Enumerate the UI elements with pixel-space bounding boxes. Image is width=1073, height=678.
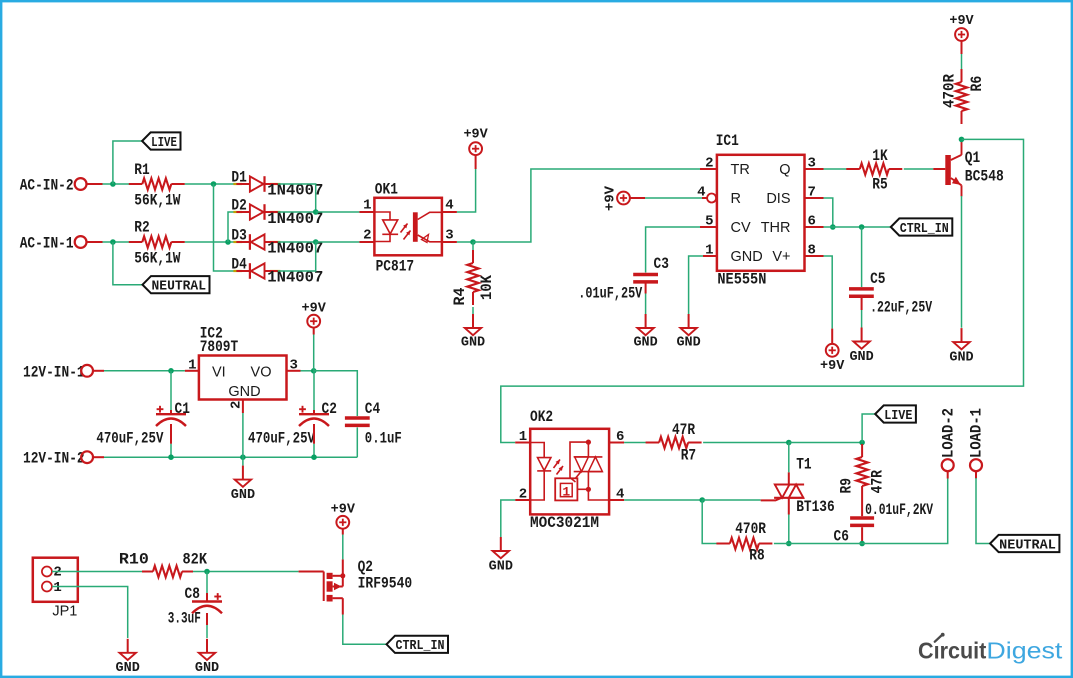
svg-text:R4: R4 bbox=[451, 287, 469, 305]
svg-text:PC817: PC817 bbox=[376, 258, 415, 276]
IC IC1 NE555N bbox=[697, 132, 823, 288]
net label NEUTRAL bbox=[143, 276, 210, 295]
svg-text:2: 2 bbox=[229, 401, 245, 409]
net label LIVE bbox=[142, 132, 180, 151]
junction bbox=[313, 209, 319, 215]
power +9V bbox=[302, 302, 327, 335]
resistor R9 bbox=[838, 444, 887, 516]
diode D2 bbox=[231, 197, 323, 228]
net label LIVE bbox=[875, 405, 916, 424]
svg-text:R10: R10 bbox=[119, 551, 149, 569]
svg-text:D1: D1 bbox=[231, 169, 246, 187]
wire bbox=[624, 499, 702, 501]
svg-text:1: 1 bbox=[705, 243, 713, 259]
junction bbox=[110, 239, 116, 245]
wire bbox=[316, 241, 360, 243]
ground bbox=[195, 639, 219, 676]
svg-text:4: 4 bbox=[445, 198, 453, 214]
wire bbox=[242, 413, 244, 466]
svg-text:GND: GND bbox=[116, 661, 140, 676]
wire bbox=[457, 169, 476, 212]
svg-text:Q2: Q2 bbox=[358, 558, 373, 576]
svg-text:+9V: +9V bbox=[949, 14, 974, 29]
wire bbox=[472, 242, 474, 250]
wire bbox=[301, 370, 314, 372]
svg-text:12V-IN-1: 12V-IN-1 bbox=[23, 363, 85, 381]
wire bbox=[501, 500, 515, 537]
svg-text:MOC3021M: MOC3021M bbox=[530, 514, 599, 532]
svg-text:C8: C8 bbox=[185, 585, 200, 603]
net label CTRL_IN bbox=[891, 218, 953, 237]
wire bbox=[961, 54, 963, 69]
capacitor C4 bbox=[345, 400, 402, 447]
svg-text:470R: 470R bbox=[735, 520, 766, 538]
junction bbox=[311, 368, 317, 374]
ground bbox=[231, 466, 255, 503]
junction bbox=[225, 239, 231, 245]
svg-text:R7: R7 bbox=[681, 446, 696, 464]
power +9V bbox=[604, 185, 645, 211]
svg-text:NE555N: NE555N bbox=[717, 270, 766, 288]
wire bbox=[472, 307, 474, 314]
svg-text:D3: D3 bbox=[231, 227, 246, 245]
svg-text:0.1uF: 0.1uF bbox=[365, 429, 402, 447]
wire bbox=[824, 226, 891, 228]
svg-text:+9V: +9V bbox=[820, 359, 845, 374]
wire bbox=[314, 371, 358, 416]
svg-text:47R: 47R bbox=[672, 421, 695, 439]
capacitor C8 bbox=[168, 585, 222, 628]
svg-text:R2: R2 bbox=[134, 219, 149, 237]
svg-text:GND: GND bbox=[231, 488, 255, 503]
svg-text:8: 8 bbox=[808, 243, 816, 259]
wire bbox=[789, 442, 862, 444]
wire bbox=[904, 168, 934, 170]
wire bbox=[356, 427, 358, 457]
wire bbox=[788, 515, 790, 544]
svg-text:GND: GND bbox=[489, 560, 513, 575]
wire bbox=[824, 256, 833, 329]
svg-text:GND: GND bbox=[676, 336, 700, 351]
wire bbox=[702, 499, 761, 501]
svg-text:7809T: 7809T bbox=[200, 338, 239, 356]
wire bbox=[193, 571, 299, 573]
resistor R5 bbox=[846, 147, 902, 194]
svg-text:C2: C2 bbox=[322, 400, 337, 418]
svg-text:0.01uF,2KV: 0.01uF,2KV bbox=[865, 501, 933, 519]
wire bbox=[185, 183, 242, 185]
svg-text:NEUTRAL: NEUTRAL bbox=[999, 537, 1056, 553]
wire bbox=[104, 456, 357, 458]
svg-text:56K,1W: 56K,1W bbox=[134, 249, 181, 267]
wire bbox=[473, 169, 700, 242]
junction bbox=[859, 440, 865, 446]
svg-text:7: 7 bbox=[808, 185, 816, 201]
connector LOAD-1 bbox=[968, 408, 986, 479]
svg-text:NEUTRAL: NEUTRAL bbox=[152, 279, 207, 295]
connector 12V-IN-2 bbox=[23, 450, 104, 468]
svg-text:IC1: IC1 bbox=[716, 132, 739, 150]
svg-text:5: 5 bbox=[705, 214, 713, 230]
svg-text:4: 4 bbox=[616, 487, 624, 503]
svg-text:TR: TR bbox=[731, 162, 750, 178]
svg-text:GND: GND bbox=[949, 350, 973, 365]
svg-text:CV: CV bbox=[731, 220, 751, 236]
wire bbox=[185, 241, 237, 243]
svg-text:LIVE: LIVE bbox=[884, 408, 912, 424]
wire bbox=[316, 211, 360, 213]
ground bbox=[849, 328, 873, 366]
wire bbox=[774, 543, 789, 545]
wire bbox=[861, 527, 863, 543]
junction bbox=[859, 541, 865, 547]
svg-text:.01uF,25V: .01uF,25V bbox=[578, 285, 642, 303]
diode D3 bbox=[231, 227, 323, 258]
wire bbox=[52, 587, 128, 639]
power +9V bbox=[949, 14, 974, 54]
triac T1 bbox=[761, 456, 835, 517]
capacitor C6 bbox=[834, 501, 934, 546]
wire bbox=[976, 478, 990, 544]
wire bbox=[313, 335, 315, 371]
svg-text:Q1: Q1 bbox=[965, 149, 980, 167]
resistor R7 bbox=[646, 421, 702, 464]
ground bbox=[676, 314, 700, 351]
wire bbox=[313, 424, 315, 457]
ground bbox=[633, 314, 657, 351]
svg-text:C4: C4 bbox=[365, 400, 381, 418]
svg-text:3: 3 bbox=[445, 228, 453, 244]
wire bbox=[103, 183, 130, 185]
svg-text:2: 2 bbox=[363, 228, 371, 244]
wire bbox=[342, 535, 344, 560]
svg-text:CTRL_IN: CTRL_IN bbox=[900, 221, 949, 237]
svg-text:T1: T1 bbox=[796, 456, 811, 474]
net label NEUTRAL bbox=[990, 535, 1059, 554]
svg-text:C1: C1 bbox=[175, 400, 190, 418]
svg-text:BC548: BC548 bbox=[965, 167, 1004, 185]
junction bbox=[168, 368, 174, 374]
svg-text:R6: R6 bbox=[968, 76, 986, 92]
resistor R10 bbox=[119, 551, 207, 578]
svg-text:Q: Q bbox=[779, 162, 790, 178]
connector JP1 bbox=[33, 558, 78, 620]
svg-text:R: R bbox=[731, 191, 741, 207]
junction bbox=[311, 454, 317, 460]
capacitor C5 bbox=[849, 270, 932, 317]
junction bbox=[786, 541, 792, 547]
connector AC-IN-2 bbox=[20, 177, 103, 195]
svg-text:2: 2 bbox=[519, 487, 527, 503]
svg-text:R8: R8 bbox=[749, 546, 764, 564]
svg-text:THR: THR bbox=[761, 220, 791, 236]
junction bbox=[699, 497, 705, 503]
junction bbox=[786, 440, 792, 446]
logo CircuitDigest bbox=[918, 633, 1063, 664]
junction bbox=[830, 224, 836, 230]
wire bbox=[702, 500, 717, 544]
resistor R2 bbox=[129, 219, 185, 268]
ground bbox=[116, 639, 140, 676]
svg-text:+9V: +9V bbox=[463, 128, 488, 143]
wire bbox=[689, 256, 703, 314]
wire bbox=[645, 197, 702, 199]
ground bbox=[949, 328, 973, 365]
svg-text:JP1: JP1 bbox=[52, 603, 77, 619]
svg-text:3: 3 bbox=[808, 156, 816, 172]
power +9V bbox=[331, 502, 356, 534]
wire bbox=[789, 478, 948, 544]
svg-text:C3: C3 bbox=[654, 255, 669, 273]
svg-text:2: 2 bbox=[53, 564, 61, 580]
optocoupler OK1 bbox=[359, 181, 457, 276]
svg-text:GND: GND bbox=[228, 384, 260, 400]
svg-text:+9V: +9V bbox=[331, 502, 356, 517]
svg-text:LIVE: LIVE bbox=[151, 135, 177, 151]
connector AC-IN-1 bbox=[20, 235, 103, 253]
wire bbox=[788, 443, 790, 473]
wire bbox=[278, 184, 316, 212]
power +9V bbox=[820, 329, 845, 374]
svg-text:D4: D4 bbox=[231, 256, 247, 274]
svg-text:1K: 1K bbox=[872, 147, 888, 165]
svg-text:GND: GND bbox=[195, 661, 219, 676]
wire bbox=[824, 168, 847, 170]
wire bbox=[214, 184, 237, 271]
svg-text:GND: GND bbox=[461, 336, 485, 351]
svg-text:10K: 10K bbox=[478, 275, 496, 300]
svg-text:56K,1W: 56K,1W bbox=[134, 191, 181, 209]
resistor R4 bbox=[451, 250, 496, 306]
wire bbox=[313, 371, 315, 414]
wire bbox=[113, 141, 142, 184]
svg-text:C5: C5 bbox=[870, 270, 885, 288]
wire bbox=[861, 297, 863, 328]
wire bbox=[645, 282, 647, 314]
svg-text:6: 6 bbox=[808, 214, 816, 230]
wire bbox=[103, 241, 130, 243]
svg-text:AC-IN-2: AC-IN-2 bbox=[20, 177, 74, 195]
wire bbox=[646, 227, 700, 273]
wire bbox=[52, 571, 142, 573]
wire bbox=[824, 198, 833, 227]
svg-text:GND: GND bbox=[731, 249, 763, 265]
wire bbox=[228, 212, 236, 242]
transistor Q2 bbox=[299, 558, 413, 615]
junction bbox=[959, 137, 965, 143]
power +9V bbox=[463, 128, 488, 169]
svg-text:1: 1 bbox=[53, 580, 61, 596]
resistor R8 bbox=[716, 520, 772, 564]
wire bbox=[170, 424, 172, 457]
wire bbox=[457, 241, 473, 243]
svg-text:.22uF,25V: .22uF,25V bbox=[870, 299, 932, 317]
svg-text:GND: GND bbox=[849, 350, 873, 365]
diode D1 bbox=[231, 169, 323, 200]
svg-text:OK1: OK1 bbox=[375, 181, 398, 199]
connector LOAD-2 bbox=[939, 408, 957, 479]
wire bbox=[501, 139, 1024, 442]
wire bbox=[113, 242, 143, 285]
diode D4 bbox=[231, 256, 323, 287]
svg-text:1: 1 bbox=[363, 198, 371, 214]
svg-text:6: 6 bbox=[616, 429, 624, 445]
svg-text:2: 2 bbox=[705, 156, 713, 172]
wire bbox=[206, 572, 208, 602]
wire bbox=[278, 242, 316, 271]
connector 12V-IN-1 bbox=[23, 363, 104, 381]
wire bbox=[206, 613, 208, 638]
svg-text:D2: D2 bbox=[231, 197, 246, 215]
svg-text:1: 1 bbox=[562, 484, 570, 499]
svg-text:1: 1 bbox=[519, 429, 527, 445]
IC IC2 7809T bbox=[185, 324, 301, 413]
svg-text:VI: VI bbox=[212, 364, 226, 380]
junction bbox=[240, 454, 246, 460]
svg-text:LOAD-2: LOAD-2 bbox=[939, 408, 957, 458]
resistor R6 bbox=[941, 69, 987, 124]
wire bbox=[862, 414, 875, 443]
optocoupler OK2 bbox=[515, 408, 624, 532]
svg-text:V+: V+ bbox=[772, 249, 790, 265]
transistor Q1 bbox=[933, 142, 1004, 196]
net label CTRL_IN bbox=[387, 636, 449, 655]
svg-text:3.3uF: 3.3uF bbox=[168, 610, 201, 628]
svg-text:IRF9540: IRF9540 bbox=[358, 574, 413, 592]
wire bbox=[170, 371, 172, 414]
capacitor C2 bbox=[248, 400, 337, 447]
svg-text:3: 3 bbox=[290, 357, 298, 373]
junction bbox=[859, 224, 865, 230]
svg-text:12V-IN-2: 12V-IN-2 bbox=[23, 450, 85, 468]
svg-text:OK2: OK2 bbox=[530, 408, 553, 426]
wire bbox=[343, 615, 387, 645]
svg-text:470uF,25V: 470uF,25V bbox=[96, 429, 163, 447]
svg-text:DIS: DIS bbox=[766, 191, 790, 207]
svg-text:AC-IN-1: AC-IN-1 bbox=[20, 235, 74, 253]
ground bbox=[461, 314, 485, 351]
junction bbox=[204, 569, 210, 575]
junction bbox=[313, 239, 319, 245]
wire bbox=[703, 442, 789, 444]
svg-text:+9V: +9V bbox=[302, 302, 327, 317]
svg-text:1: 1 bbox=[188, 357, 196, 373]
svg-text:R9: R9 bbox=[838, 478, 856, 494]
wire bbox=[278, 211, 316, 213]
resistor R1 bbox=[129, 161, 185, 209]
svg-text:LOAD-1: LOAD-1 bbox=[968, 408, 986, 458]
svg-text:Cırcuit: Cırcuit bbox=[918, 638, 987, 664]
svg-text:47R: 47R bbox=[869, 470, 887, 494]
svg-text:GND: GND bbox=[633, 336, 657, 351]
svg-text:82K: 82K bbox=[183, 551, 208, 569]
wire bbox=[278, 241, 316, 243]
svg-text:BT136: BT136 bbox=[796, 498, 835, 516]
svg-text:R5: R5 bbox=[872, 176, 887, 194]
ground bbox=[489, 537, 513, 575]
svg-text:CTRL_IN: CTRL_IN bbox=[396, 638, 445, 654]
svg-text:470uF,25V: 470uF,25V bbox=[248, 429, 315, 447]
junction bbox=[168, 454, 174, 460]
capacitor C1 bbox=[96, 400, 189, 447]
capacitor C3 bbox=[578, 255, 669, 303]
wire bbox=[624, 442, 646, 444]
junction bbox=[470, 239, 476, 245]
svg-text:470R: 470R bbox=[941, 74, 959, 108]
wire bbox=[861, 227, 863, 287]
junction bbox=[211, 181, 217, 187]
svg-text:VO: VO bbox=[251, 364, 272, 380]
svg-text:+9V: +9V bbox=[604, 185, 619, 211]
wire bbox=[104, 370, 185, 372]
wire bbox=[961, 196, 963, 328]
svg-text:Digest: Digest bbox=[986, 638, 1063, 664]
junction bbox=[110, 181, 116, 187]
svg-text:R1: R1 bbox=[134, 161, 149, 179]
